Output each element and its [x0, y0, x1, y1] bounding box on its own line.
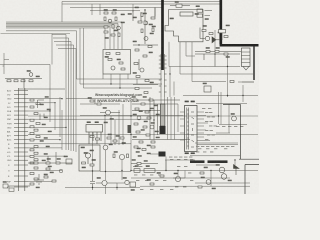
electrolytic capacitor C612: [90, 171, 95, 190]
AC filter block top-right: [196, 6, 212, 20]
IC801 pin labels: [202, 108, 243, 140]
wire bundle band top-left: [1, 22, 123, 34]
transistor Q905: [111, 66, 115, 70]
transformer winding T802 core ticks: [159, 54, 167, 97]
parts above switch blob: [131, 146, 158, 165]
thick mains bus vertical: [219, 0, 222, 44]
bus drop right edge: [253, 46, 255, 80]
core gray bar: [160, 104, 165, 126]
dense driver cluster: [132, 97, 190, 149]
transistor Q403: [29, 73, 33, 77]
transistor Q901: [108, 19, 112, 23]
wire fan turning down to lower-left: [52, 28, 84, 152]
right mid parts: [203, 81, 236, 121]
transistor Q604: [113, 152, 129, 160]
switch black blob: [159, 152, 166, 157]
transistor Q613: [206, 180, 211, 185]
startup chain left of bus: [133, 7, 158, 94]
bottom mid-left parts: [28, 152, 72, 173]
bottom fuse and resistor row: [130, 166, 181, 191]
wires mid-left vertical: [50, 78, 62, 150]
posistor Q: [205, 36, 209, 40]
upper-left frame wire: [0, 53, 50, 78]
jungle IC801 tall box: [185, 101, 198, 154]
core line to blob: [161, 97, 164, 104]
branch wires from connector: [28, 99, 258, 182]
right mid wires: [195, 67, 254, 103]
top horizontal wires: [62, 2, 220, 23]
flyback transformer T801 outline: [165, 10, 203, 42]
CRT socket connector: [242, 48, 251, 70]
stub resistors on connector branches: [30, 97, 51, 188]
diode D610: [234, 165, 240, 169]
transistor Q808: [140, 68, 144, 72]
transistor Q811: [150, 125, 154, 129]
IC801 pin stubs: [180, 112, 238, 145]
transistor Q610: [175, 176, 180, 181]
vertical from band to left block: [51, 34, 53, 65]
transistor Q611: [219, 167, 225, 173]
vertical output drop: [166, 160, 235, 186]
vertical regulator IC803 box: [86, 122, 103, 144]
horizontal wire over middle: [66, 99, 184, 116]
power label row: [169, 157, 193, 160]
bottom label texture: [133, 166, 173, 190]
regulator IC902 box: [103, 50, 131, 75]
transistor Q612: [221, 174, 227, 180]
transistor Q812: [232, 116, 237, 121]
vertical wires before tall IC: [168, 97, 179, 140]
bottom long wires: [131, 143, 258, 186]
transistor Q902: [117, 26, 121, 30]
thick degauss bus vertical: [161, 0, 164, 70]
relay switch box: [64, 156, 72, 164]
transistor Q605: [96, 178, 117, 186]
thick mains bus horizontal: [220, 44, 259, 47]
wire into blob: [150, 153, 159, 155]
CRT outline bottom-right: [223, 105, 259, 195]
paper noise overlay: [0, 0, 259, 194]
B+ resistor row top-right: [195, 48, 241, 67]
transistor Q603: [103, 144, 112, 150]
transistor Q602: [85, 153, 90, 158]
top component cluster: [104, 8, 155, 39]
wires around IC801 top: [183, 54, 258, 133]
transistor Q801: [100, 108, 120, 115]
core black blob: [160, 126, 166, 134]
wire above bar: [190, 155, 240, 157]
wire drops from band into IC902 box: [105, 22, 122, 49]
vertical drain wires: [106, 150, 125, 190]
transistor Q606: [123, 178, 129, 185]
heater label row: [196, 146, 234, 149]
pin parts row under IC803: [104, 119, 125, 144]
power sub-circuit box: [79, 145, 100, 171]
connector tag dark mark: [128, 125, 132, 133]
label marks above bar: [196, 151, 213, 154]
transistor Q903: [144, 21, 148, 25]
main connector rail P401: [19, 88, 25, 191]
centre vertical wires: [93, 97, 132, 171]
bottom-right amp pair: [195, 165, 250, 189]
anode thick bar left segment: [190, 160, 205, 163]
wires below IC902: [77, 74, 163, 88]
anode thick bar right segment: [208, 160, 228, 163]
bottom rails mid-left: [65, 172, 140, 195]
deflection labels: [175, 166, 193, 187]
bottom-left ground cluster: [3, 174, 56, 191]
transformer secondary drops: [169, 42, 200, 97]
left AV component row: [5, 71, 65, 90]
focus wire right: [215, 30, 254, 82]
transistor Q810: [137, 116, 141, 120]
connector pin labels: [7, 90, 12, 190]
degauss cluster at bus corner: [200, 25, 229, 43]
transistor Q807: [144, 37, 148, 41]
small parts above IC803: [88, 98, 101, 106]
connector pin ticks: [14, 91, 28, 188]
diode D801: [170, 2, 190, 8]
